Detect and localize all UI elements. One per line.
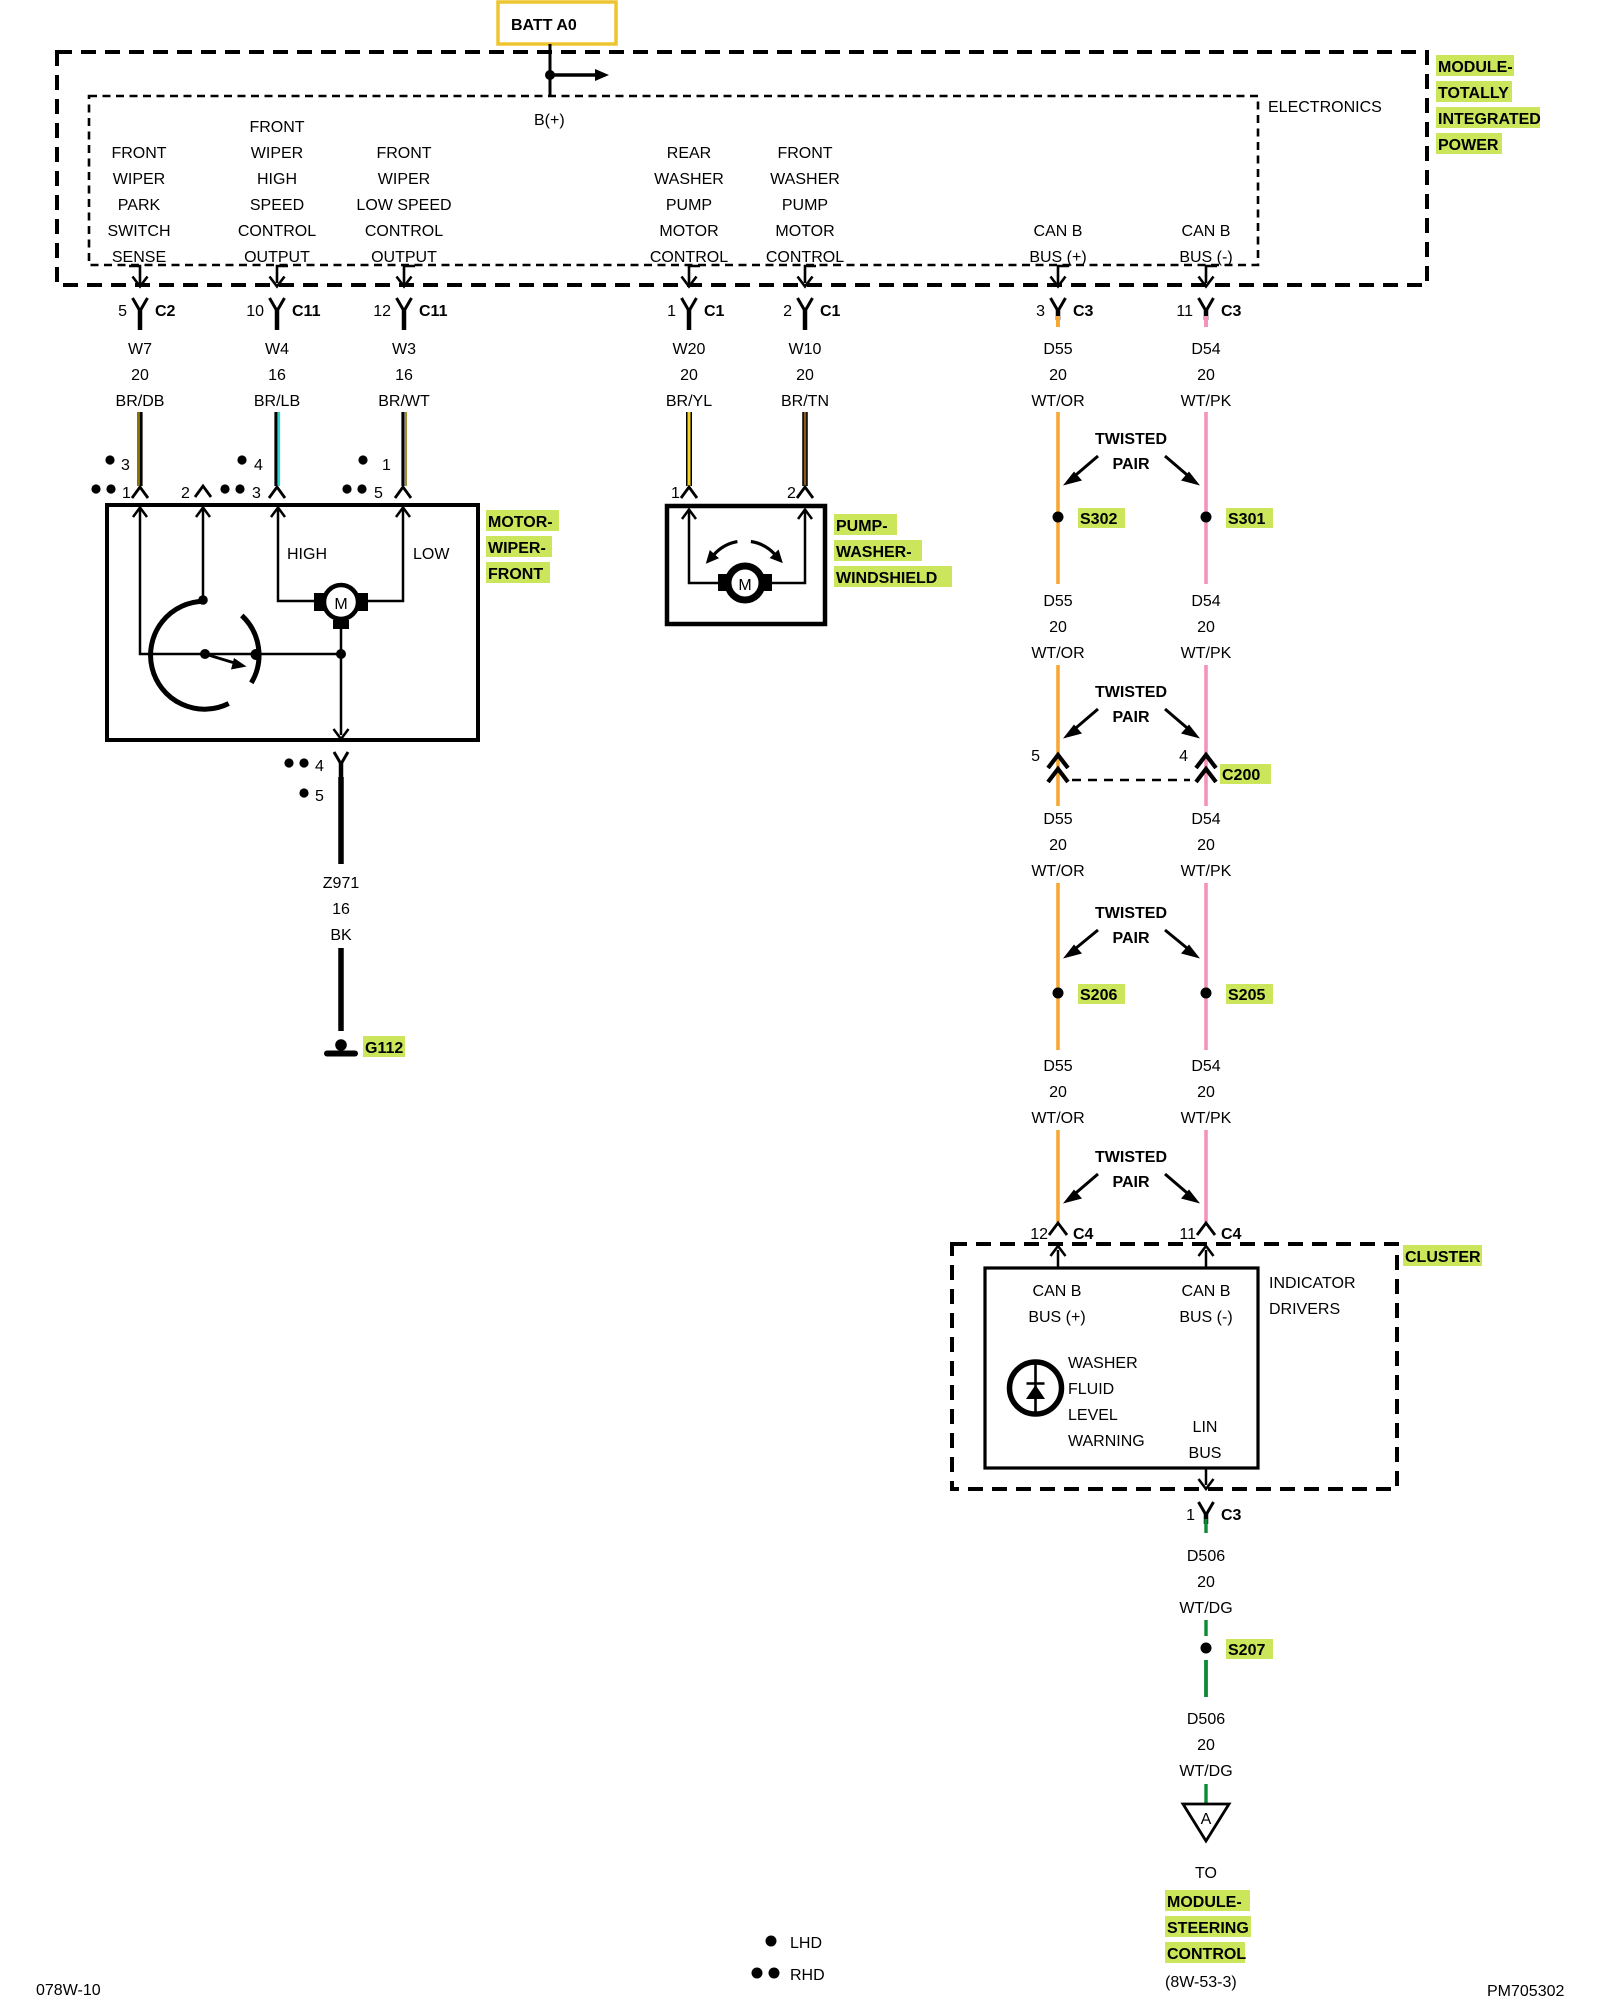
svg-text:4: 4 [315,758,324,775]
svg-text:C1: C1 [820,303,841,320]
motor M2 pump symbol [718,566,772,600]
svg-text:WIPER: WIPER [378,171,430,188]
indicator lamp washer fluid level warning [1010,1362,1062,1414]
svg-text:WASHER: WASHER [770,171,840,188]
svg-text:2: 2 [787,485,796,502]
svg-text:C3: C3 [1221,1507,1242,1524]
connector C200 dashed link and label [1072,764,1271,784]
svg-text:INTEGRATED: INTEGRATED [1438,111,1541,128]
svg-text:REAR: REAR [667,145,711,162]
svg-text:CLUSTER: CLUSTER [1405,1249,1481,1266]
cluster dashed box [952,1244,1397,1489]
pump box pin 2 label and chevron [787,485,813,502]
pin label FRONT WIPER HIGH SPEED CONTROL OUTPUT [238,119,316,266]
wire D54 WT/PK segment 6 [1204,1130,1208,1222]
pin label CAN B BUS (-) cluster [1179,1283,1232,1326]
module TIPM outer dashed box [57,52,1427,285]
svg-text:2: 2 [783,303,792,320]
svg-text:BR/TN: BR/TN [781,393,829,410]
svg-text:CONTROL: CONTROL [650,249,728,266]
wire label W20 20 BR/YL [666,341,712,410]
pin label FRONT WIPER PARK SWITCH SENSE [107,145,170,266]
svg-text:S205: S205 [1228,987,1265,1004]
svg-text:S207: S207 [1228,1642,1265,1659]
svg-text:20: 20 [680,367,698,384]
wire label D54 20 WT/PK [1181,341,1232,410]
connector C1 pin 2 [783,298,840,330]
wire D506 segment 3 [1204,1784,1207,1804]
motor box pin 1 chevron [132,487,148,498]
wire D55 WT/OR segment 4 [1056,883,1060,993]
wire exit hook pin 10 C11 [270,266,289,287]
destination label MODULE-STEERING CONTROL [1165,1890,1251,1963]
svg-text:D506: D506 [1187,1711,1225,1728]
svg-text:PUMP-: PUMP- [836,518,888,535]
svg-text:11: 11 [1176,303,1193,320]
park switch contact arc [242,616,259,683]
pin label FRONT WIPER LOW SPEED CONTROL OUTPUT [356,145,451,266]
wire D54 WT/PK segment 2 [1204,517,1208,584]
wire exit hook pin 11 C3 [1199,266,1218,287]
svg-text:CONTROL: CONTROL [1167,1946,1246,1963]
wire D54 WT/PK segment 4 [1204,883,1208,993]
svg-text:PAIR: PAIR [1112,930,1149,947]
svg-text:SENSE: SENSE [112,249,166,266]
motor box pin 4 markers [284,758,324,805]
wire D55 WT/OR segment 5 [1056,993,1060,1050]
wire label W4 16 BR/LB [254,341,300,410]
pump washer windshield box [667,506,825,624]
svg-text:3: 3 [1036,303,1045,320]
svg-text:WT/OR: WT/OR [1031,645,1084,662]
svg-text:20: 20 [131,367,149,384]
svg-text:MODULE-: MODULE- [1438,59,1513,76]
svg-text:2: 2 [181,485,190,502]
svg-text:D55: D55 [1043,1058,1072,1075]
svg-text:C3: C3 [1221,303,1242,320]
svg-text:078W-10: 078W-10 [36,1982,101,1999]
svg-text:BUS (-): BUS (-) [1179,1309,1232,1326]
svg-text:B(+): B(+) [534,112,565,129]
svg-text:12: 12 [1030,1226,1048,1243]
svg-text:C200: C200 [1222,767,1260,784]
svg-text:CAN B: CAN B [1182,1283,1231,1300]
svg-text:D54: D54 [1191,593,1220,610]
connector C200 pin 5 chevrons [1031,748,1068,782]
svg-text:D54: D54 [1191,1058,1220,1075]
svg-text:WT/PK: WT/PK [1181,393,1232,410]
svg-text:3: 3 [121,457,130,474]
wire D506 segment 2 [1204,1660,1208,1697]
svg-text:S206: S206 [1080,987,1117,1004]
svg-text:WASHER: WASHER [1068,1355,1138,1372]
splice S302 [1053,508,1126,528]
wire Z971 lower segment [338,948,344,1031]
svg-text:FRONT: FRONT [249,119,304,136]
wire pin3 HIGH to motor [271,508,316,602]
svg-text:WT/OR: WT/OR [1031,863,1084,880]
svg-text:OUTPUT: OUTPUT [244,249,310,266]
label TWISTED PAIR 4 [1095,1149,1167,1191]
wire D54 WT/PK segment 3 [1204,665,1208,806]
svg-text:20: 20 [1049,837,1067,854]
svg-text:BUS (-): BUS (-) [1179,249,1232,266]
connector C3 pin 3 [1036,298,1093,327]
svg-text:5: 5 [1031,748,1040,765]
svg-text:HIGH: HIGH [287,546,327,563]
wire label W10 20 BR/TN [781,341,829,410]
svg-text:16: 16 [268,367,286,384]
wire pin5 LOW to motor [366,508,410,602]
svg-text:12: 12 [373,303,391,320]
svg-text:16: 16 [395,367,413,384]
svg-text:WASHER-: WASHER- [836,544,912,561]
svg-text:BUS (+): BUS (+) [1029,249,1086,266]
ground G112 [327,1036,405,1057]
svg-text:LHD: LHD [790,1935,822,1952]
svg-text:20: 20 [1049,619,1067,636]
legend RHD [752,1967,825,1984]
svg-text:10: 10 [246,303,264,320]
connector below motor pin 4 [334,752,348,777]
wire label Z971 16 BK [323,875,360,944]
connector C2 pin 5 [118,298,175,330]
connector C1 pin 1 [667,298,724,330]
cluster inner box [985,1268,1258,1468]
svg-text:20: 20 [1197,1574,1215,1591]
wire exit hook pin 3 C3 [1051,266,1070,287]
label TWISTED PAIR 2 [1095,684,1167,726]
motor box pin 5 chevron [395,487,411,498]
svg-text:TWISTED: TWISTED [1095,905,1167,922]
svg-text:20: 20 [1197,367,1215,384]
svg-text:TOTALLY: TOTALLY [1438,85,1509,102]
svg-text:TO: TO [1195,1865,1217,1882]
svg-text:WIPER-: WIPER- [488,540,546,557]
motor box pin 3 markers [220,455,263,502]
wire exit hook pin 12 C11 [397,266,416,287]
svg-text:5: 5 [374,485,383,502]
label TWISTED PAIR 3 [1095,905,1167,947]
svg-text:FRONT: FRONT [111,145,166,162]
wire W10 BR/TN [802,412,808,486]
wire exit hook pin 5 C2 [129,266,148,287]
motor M1 wiper symbol [314,585,368,629]
svg-text:OUTPUT: OUTPUT [371,249,437,266]
svg-text:20: 20 [1197,619,1215,636]
wire W7 BR/DB [138,412,141,486]
twisted pair pointer right 2 [1165,709,1200,739]
svg-text:G112: G112 [365,1040,403,1057]
wire pump pin 2 to motor [768,510,812,584]
svg-text:20: 20 [1197,1084,1215,1101]
pump rotation arrows [706,542,783,564]
svg-text:MOTOR-: MOTOR- [488,514,553,531]
svg-text:MOTOR: MOTOR [775,223,834,240]
wire label D55 20 WT/OR mid2 [1031,811,1084,880]
svg-text:1: 1 [667,303,676,320]
svg-text:(8W-53-3): (8W-53-3) [1165,1974,1237,1991]
module TIPM inner electronics dashed box [89,96,1258,265]
wire label W3 16 BR/WT [378,341,430,410]
svg-text:C11: C11 [419,303,448,320]
svg-text:WIPER: WIPER [113,171,165,188]
svg-text:PAIR: PAIR [1112,709,1149,726]
svg-text:A: A [1201,1811,1212,1828]
svg-text:4: 4 [254,457,263,474]
module label MODULE-TOTALLY INTEGRATED POWER [1436,55,1541,154]
twisted pair pointer left 3 [1063,930,1098,959]
twisted pair pointer right 3 [1165,930,1200,959]
svg-text:WT/OR: WT/OR [1031,1110,1084,1127]
svg-text:W20: W20 [673,341,706,358]
wire D54 WT/PK segment 1 [1204,412,1208,517]
svg-text:S301: S301 [1228,511,1265,528]
wire B(+) feed [545,44,609,96]
splice S301 [1201,508,1274,528]
motor box pin 2 marker and chevron [181,485,211,502]
svg-text:11: 11 [1179,1226,1196,1243]
connector C3 pin 11 [1176,298,1241,327]
svg-text:WT/DG: WT/DG [1179,1763,1232,1780]
svg-text:16: 16 [332,901,350,918]
wire label D55 20 WT/OR mid1 [1031,593,1084,662]
svg-text:4: 4 [1179,748,1188,765]
wire W4 BR/LB [276,412,279,486]
svg-text:BR/YL: BR/YL [666,393,712,410]
svg-text:WASHER: WASHER [654,171,724,188]
svg-text:FLUID: FLUID [1068,1381,1114,1398]
svg-text:CAN B: CAN B [1034,223,1083,240]
svg-text:CONTROL: CONTROL [365,223,443,240]
svg-text:BATT A0: BATT A0 [511,17,577,34]
svg-text:C11: C11 [292,303,321,320]
connector C4 pin 11 [1179,1223,1241,1243]
svg-text:PUMP: PUMP [782,197,828,214]
svg-text:C4: C4 [1221,1226,1242,1243]
park switch wiper arm [200,649,262,670]
svg-text:D54: D54 [1191,811,1220,828]
component label CLUSTER [1403,1245,1482,1266]
svg-text:Z971: Z971 [323,875,360,892]
splice S207 [1201,1639,1274,1659]
svg-text:BR/DB: BR/DB [116,393,165,410]
svg-text:WIPER: WIPER [251,145,303,162]
svg-text:S302: S302 [1080,511,1117,528]
node LIN BUS label [1189,1419,1222,1462]
svg-text:BUS (+): BUS (+) [1028,1309,1085,1326]
wire label W7 20 BR/DB [116,341,165,410]
svg-text:BR/WT: BR/WT [378,393,430,410]
svg-text:5: 5 [315,788,324,805]
wire pin1 into park switch [133,508,341,655]
twisted pair pointer right 4 [1165,1174,1200,1204]
twisted pair pointer left 1 [1063,456,1098,486]
svg-text:1: 1 [382,457,391,474]
svg-text:MOTOR: MOTOR [659,223,718,240]
svg-text:CONTROL: CONTROL [766,249,844,266]
svg-text:SPEED: SPEED [250,197,304,214]
svg-text:3: 3 [252,485,261,502]
svg-text:WARNING: WARNING [1068,1433,1145,1450]
cluster entry arrow pin 12 [1051,1246,1066,1268]
wire W3 BR/WT [403,412,406,486]
svg-text:W4: W4 [265,341,289,358]
pin label CAN B BUS (+) cluster [1028,1283,1085,1326]
wire exit hook pin 1 C1 [682,266,701,287]
wire D55 WT/OR segment 6 [1056,1130,1060,1222]
svg-text:WT/PK: WT/PK [1181,1110,1232,1127]
twisted pair pointer right 1 [1165,456,1200,486]
svg-text:WT/OR: WT/OR [1031,393,1084,410]
wire label D54 20 WT/PK mid1 [1181,593,1232,662]
pin label CAN B BUS (+) [1029,223,1086,266]
svg-text:BR/LB: BR/LB [254,393,300,410]
connector C3 pin 1 [1186,1502,1241,1533]
svg-text:POWER: POWER [1438,137,1499,154]
pin label CAN B BUS (-) [1179,223,1232,266]
motor output junction [334,629,349,739]
svg-text:TWISTED: TWISTED [1095,684,1167,701]
svg-text:INDICATOR: INDICATOR [1269,1275,1356,1292]
component label MOTOR-WIPER-FRONT [486,510,559,583]
svg-text:20: 20 [1197,1737,1215,1754]
component label PUMP-WASHER-WINDSHIELD [834,514,952,587]
svg-text:1: 1 [122,485,131,502]
svg-text:PAIR: PAIR [1112,1174,1149,1191]
svg-text:C2: C2 [155,303,176,320]
svg-text:CAN B: CAN B [1182,223,1231,240]
legend LHD [766,1935,823,1952]
svg-text:20: 20 [1049,367,1067,384]
wire D55 WT/OR segment 1 [1056,412,1060,517]
wire D506 segment 1 [1204,1620,1207,1636]
svg-text:ELECTRONICS: ELECTRONICS [1268,99,1382,116]
svg-text:WT/DG: WT/DG [1179,1600,1232,1617]
svg-text:BK: BK [330,927,352,944]
connector BATT A0 [498,2,616,44]
svg-text:C3: C3 [1073,303,1094,320]
svg-text:WT/PK: WT/PK [1181,863,1232,880]
wire label D55 20 WT/OR [1031,341,1084,410]
twisted pair pointer left 4 [1063,1174,1098,1204]
svg-text:HIGH: HIGH [257,171,297,188]
svg-text:W3: W3 [392,341,416,358]
motor box pin 3 chevron [269,487,285,498]
svg-text:W7: W7 [128,341,152,358]
splice S205 [1201,984,1274,1004]
splice S206 [1053,984,1126,1004]
svg-text:M: M [334,596,347,613]
svg-text:SWITCH: SWITCH [107,223,170,240]
svg-text:C1: C1 [704,303,725,320]
wire exit hook pin 2 C1 [798,266,817,287]
svg-text:5: 5 [118,303,127,320]
wire label D54 20 WT/PK mid3 [1181,1058,1232,1127]
connector C4 pin 12 [1030,1223,1093,1243]
svg-text:LEVEL: LEVEL [1068,1407,1118,1424]
label TWISTED PAIR 1 [1095,431,1167,473]
svg-text:C4: C4 [1073,1226,1094,1243]
twisted pair pointer left 2 [1063,709,1098,739]
svg-text:LIN: LIN [1193,1419,1218,1436]
svg-text:WINDSHIELD: WINDSHIELD [836,570,937,587]
pin label FRONT WASHER PUMP MOTOR CONTROL [766,145,844,266]
wire LIN BUS exit arrow [1199,1468,1214,1489]
svg-text:DRIVERS: DRIVERS [1269,1301,1340,1318]
svg-text:CAN B: CAN B [1033,1283,1082,1300]
svg-text:20: 20 [1049,1084,1067,1101]
wire D54 WT/PK segment 5 [1204,993,1208,1050]
wire pump pin 1 to motor [682,510,722,584]
svg-text:D506: D506 [1187,1548,1225,1565]
svg-text:FRONT: FRONT [488,566,543,583]
wire D55 WT/OR segment 3 [1056,665,1060,806]
node WASHER FLUID LEVEL WARNING label [1068,1355,1145,1450]
wire D55 WT/OR segment 2 [1056,517,1060,584]
svg-text:D55: D55 [1043,811,1072,828]
svg-text:CONTROL: CONTROL [238,223,316,240]
node INDICATOR DRIVERS label [1269,1275,1356,1318]
motor box pin 1 markers (dots and numbers) [91,455,131,502]
motor wiper front box [107,505,478,740]
wire label D54 20 WT/PK mid2 [1181,811,1232,880]
svg-text:TWISTED: TWISTED [1095,1149,1167,1166]
svg-text:RHD: RHD [790,1967,825,1984]
svg-text:20: 20 [796,367,814,384]
svg-text:MODULE-: MODULE- [1167,1894,1242,1911]
svg-text:LOW: LOW [413,546,450,563]
svg-text:WT/PK: WT/PK [1181,645,1232,662]
svg-text:PARK: PARK [118,197,161,214]
park switch arc [151,601,229,709]
motor box pin 5 markers [342,455,391,502]
svg-text:D54: D54 [1191,341,1220,358]
wire label D55 20 WT/OR mid3 [1031,1058,1084,1127]
svg-text:STEERING: STEERING [1167,1920,1249,1937]
svg-text:W10: W10 [789,341,822,358]
svg-text:D55: D55 [1043,593,1072,610]
wire pin2 into park switch top [196,508,210,605]
svg-text:FRONT: FRONT [376,145,431,162]
svg-text:1: 1 [671,485,680,502]
svg-text:PUMP: PUMP [666,197,712,214]
off-page connector A to steering control module [1183,1804,1229,1841]
wire label D506 20 WT/DG lower [1179,1711,1232,1780]
svg-text:PAIR: PAIR [1112,456,1149,473]
pin label REAR WASHER PUMP MOTOR CONTROL [650,145,728,266]
wire Z971 upper segment [338,777,344,864]
connector C11 pin 10 [246,298,320,330]
svg-text:BUS: BUS [1189,1445,1222,1462]
svg-text:M: M [738,577,751,594]
svg-text:PM705302: PM705302 [1487,1983,1564,2000]
wire label D506 20 WT/DG upper [1179,1548,1232,1617]
svg-text:1: 1 [1186,1507,1195,1524]
svg-text:TWISTED: TWISTED [1095,431,1167,448]
connector C200 pin 4 chevrons [1179,748,1216,782]
wire W20 BR/YL [686,412,692,486]
connector C11 pin 12 [373,298,447,330]
cluster entry arrow pin 11 [1199,1246,1214,1268]
svg-text:D55: D55 [1043,341,1072,358]
pump box pin 1 label and chevron [671,485,697,502]
svg-text:LOW SPEED: LOW SPEED [356,197,451,214]
svg-text:20: 20 [1197,837,1215,854]
svg-text:FRONT: FRONT [777,145,832,162]
